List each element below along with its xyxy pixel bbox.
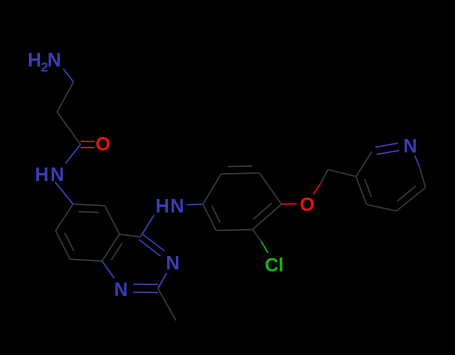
- bond C2-CH3 methyl: [158, 289, 176, 321]
- bond C4a-C4: [119, 234, 141, 237]
- label Cl chloro: [265, 256, 284, 277]
- svg-text:H: H: [28, 50, 42, 71]
- bond C6=C5: [73, 204, 105, 213]
- bond C4'-C5': [260, 173, 282, 204]
- bond C5=C6 pyridine: [397, 186, 426, 211]
- svg-text:N: N: [47, 50, 61, 71]
- bond NH-C1': [187, 203, 204, 206]
- bond C3-C2 pyridine: [356, 152, 372, 177]
- label O carbonyl: [96, 135, 111, 156]
- double bond C2=N1: [133, 284, 158, 292]
- double bond C2=N pyridine: [375, 143, 399, 154]
- bond O-CH2: [313, 170, 328, 195]
- bond C3'-Cl: [253, 230, 269, 254]
- svg-text:H: H: [156, 197, 170, 218]
- bond C7-C6: [56, 204, 73, 231]
- bond CH2-C3(pyridine): [328, 170, 356, 177]
- svg-text:N: N: [50, 165, 64, 186]
- label O ether: [300, 195, 315, 216]
- bond C4-C5 pyridine: [367, 205, 397, 212]
- bond H2N-CH2: [63, 69, 73, 82]
- svg-text:Cl: Cl: [265, 256, 284, 277]
- bond C6'-C1': [203, 174, 221, 204]
- bond CH2-C(=O): [57, 112, 81, 144]
- svg-text:H: H: [35, 165, 49, 186]
- svg-text:N: N: [114, 280, 128, 301]
- bond N-C6 pyridine: [415, 156, 426, 188]
- svg-text:N: N: [403, 137, 417, 158]
- svg-text:O: O: [300, 195, 315, 216]
- bond C3'=C4': [253, 203, 282, 229]
- label N pyridine: [403, 137, 417, 158]
- label HN anilino: [156, 197, 185, 218]
- label HN amide: [35, 165, 64, 186]
- label N1 quinazoline: [114, 280, 128, 301]
- bond C5'=C6': [221, 166, 260, 174]
- bond C(=O)-NH: [65, 144, 80, 163]
- bond CH2-CH2: [57, 82, 74, 112]
- label N3 quinazoline: [166, 253, 180, 274]
- bond C2'-C3': [216, 230, 253, 231]
- bond C4'-O: [282, 203, 297, 205]
- bond C4-NH: [141, 215, 154, 236]
- bond HN-C6: [55, 182, 73, 204]
- bond C5-C4a: [105, 206, 120, 235]
- label H2N amine: [28, 50, 62, 74]
- bond C8a-C8: [70, 259, 102, 261]
- svg-text:N: N: [166, 253, 180, 274]
- bond C4a=C8a: [102, 234, 122, 261]
- double bond C=O: [81, 141, 95, 147]
- svg-text:N: N: [170, 197, 184, 218]
- bond N3-C2: [158, 273, 167, 289]
- bond C1'=C2': [203, 204, 220, 230]
- svg-text:O: O: [96, 135, 111, 156]
- bond C3=C4 pyridine: [356, 177, 371, 205]
- double bond C4=N3: [139, 235, 165, 257]
- bond C8=C7: [56, 231, 74, 259]
- bond N1-C8a: [102, 261, 114, 278]
